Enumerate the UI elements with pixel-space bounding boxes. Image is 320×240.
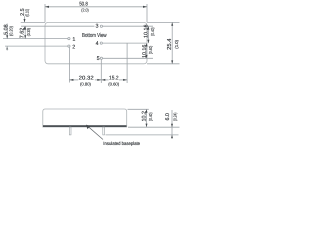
dimension 25.4 dimension line [171, 22, 173, 63]
dimension 2.5 arrow up below [24, 26, 26, 29]
dimension 7.62 arrow up [24, 26, 26, 29]
dimension 5.08 dimension line below [6, 46, 8, 50]
dimension 10.16 lower dimension line [146, 43, 148, 58]
dimension 20.32 arrow left [69, 79, 73, 81]
pin 5 leader line [103, 57, 153, 59]
dimension 2.5 arrow down [24, 19, 26, 22]
dimension 25.4 top extension line [147, 21, 180, 23]
dimension 10.2 arrow down [146, 124, 148, 127]
svg-text:Bottom View: Bottom View [82, 32, 107, 39]
dimension 5.08 arrow down [6, 35, 8, 38]
dimension 50.8 arrow left [45, 6, 49, 8]
pin 4 circle [100, 42, 102, 44]
dimension 20.32 left extension dropper from pin 2 [68, 47, 70, 82]
svg-text:25.4: 25.4 [166, 38, 173, 50]
svg-text:(0.24): (0.24) [173, 112, 178, 121]
svg-text:Insulated baseplate: Insulated baseplate [103, 141, 140, 147]
pin 3 leader line right segment [103, 25, 153, 27]
pin 5 circle [100, 57, 102, 59]
dimension 25.4 arrow up [171, 22, 173, 25]
dimension 15.2 arrow left [101, 79, 105, 81]
dimension 10.16 upper arrow up [147, 26, 149, 29]
side view insulated baseplate bar [43, 125, 127, 127]
dimension 25.4 arrow down [171, 60, 173, 63]
dimension 25.4 bottom extension line [147, 63, 180, 65]
pin 2 leader line [5, 45, 68, 47]
svg-text:(0.30): (0.30) [26, 28, 31, 36]
svg-text:5: 5 [97, 56, 100, 62]
insulated baseplate leader line [87, 126, 103, 140]
dimension 20.32 dimension line [69, 79, 78, 81]
dimension 10.2 arrow up [146, 109, 148, 112]
svg-text:(1.0): (1.0) [174, 39, 179, 48]
svg-text:1: 1 [72, 37, 75, 43]
svg-text:4: 4 [96, 41, 99, 47]
dimension 10.16 lower arrow down [146, 55, 148, 58]
svg-text:(0.80): (0.80) [80, 81, 92, 86]
svg-text:10.16: 10.16 [143, 25, 149, 39]
svg-text:(0.40): (0.40) [148, 45, 153, 54]
svg-text:6.0: 6.0 [165, 113, 171, 121]
svg-text:(0.60): (0.60) [108, 81, 120, 86]
dimension 50.8 extension line right [146, 4, 148, 22]
dimension 20.32 dimension line right part [95, 79, 102, 81]
svg-text:3: 3 [96, 24, 99, 30]
dimension 10.2 dimension line [146, 109, 148, 127]
dimension 50.8 dimension line [45, 6, 147, 8]
pin 2 circle [68, 45, 70, 47]
dimension 15.2 dimension line [101, 79, 108, 81]
dimension 6.0 arrow down from above [171, 124, 173, 127]
dimension 10.16 lower arrow up [146, 43, 148, 46]
dimension 50.8 arrow right [143, 6, 147, 8]
pin 3 circle [100, 25, 102, 27]
dimension 10.16 upper arrow down [147, 40, 149, 43]
bottom view case outline [45, 22, 147, 63]
svg-text:(0.20): (0.20) [9, 26, 14, 36]
pin 1 circle [68, 38, 70, 40]
dimension 50.8 extension line left [44, 4, 46, 22]
side view case outline [43, 109, 127, 127]
dimension 5.08 dimension line above [6, 24, 8, 39]
svg-text:7.62: 7.62 [20, 28, 26, 39]
dimension 10.2 top extension line [128, 108, 149, 110]
dimension 2.5 top edge extension line left [21, 21, 45, 23]
svg-text:(2.0): (2.0) [81, 7, 89, 12]
side view pin left [69, 127, 71, 135]
svg-text:(0.40): (0.40) [150, 27, 155, 36]
dimension 15.2 dimension line right part [119, 79, 127, 81]
svg-text:(0.10): (0.10) [24, 9, 29, 17]
pin 4 leader line [103, 42, 147, 44]
pin 3 leader line left segment [21, 25, 95, 27]
insulated baseplate leader arrowhead [86, 125, 90, 130]
dimension 6.0 dimension line [171, 110, 173, 138]
dimension 20.32 / 15.2 middle extension dropper from pin 5 circle [100, 60, 102, 84]
svg-text:2: 2 [72, 44, 75, 50]
dimension 10.16 upper dimension line [147, 26, 149, 43]
pin 1 leader line [3, 38, 68, 40]
dimension 2.5 dimension line above [24, 16, 26, 22]
svg-text:10.2: 10.2 [141, 111, 147, 122]
dimension 5.08 arrow up below [6, 46, 8, 49]
side view pin right [103, 127, 105, 135]
dimension 7.62 arrow down [24, 35, 26, 38]
dimension 15.2 right extension dropper from pin 4 leader [126, 43, 128, 83]
dimension 15.2 arrow right [123, 79, 127, 81]
pin bottom extension line [106, 134, 179, 136]
baseplate bottom extension line [128, 126, 180, 128]
dimension 6.0 arrow up from below [171, 135, 173, 138]
svg-text:10.16: 10.16 [142, 45, 148, 59]
svg-text:(0.40): (0.40) [148, 112, 153, 121]
dimension 7.62 dimension line [24, 26, 26, 38]
dimension 20.32 arrow right [97, 79, 101, 81]
